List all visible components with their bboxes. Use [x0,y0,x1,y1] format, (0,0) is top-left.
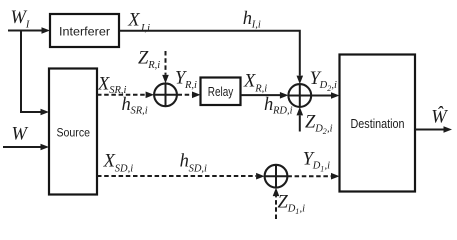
svg-text:R,i: R,i [184,80,197,91]
svg-text:RD,i: RD,i [272,106,293,117]
source box [49,69,97,195]
svg-text:X: X [127,11,140,31]
svg-text:Interferer: Interferer [59,25,110,39]
wire Y_D2 from adder C2 to Destination [311,92,339,99]
svg-text:SR,i: SR,i [131,106,148,117]
wire Y_R dashed from adder C1 to Relay [178,92,201,99]
svg-text:SD,i: SD,i [115,163,133,174]
svg-text:Relay: Relay [208,84,234,99]
wire Destination output W-hat [415,126,452,133]
destination box [340,55,416,192]
wire X_SD dashed from Source to adder C3 [97,173,265,180]
svg-text:X: X [243,72,256,92]
wire Y_D1 dashed from adder C3 to Destination [287,173,339,180]
svg-text:R,i: R,i [254,83,267,94]
adder C1 (sum at relay input) [154,83,177,106]
svg-text:I,i: I,i [251,20,261,31]
svg-text:,i: ,i [331,80,337,91]
svg-text:I,i: I,i [140,23,150,34]
svg-text:,i: ,i [325,161,331,172]
wire Z_D2 into adder C2 from below [297,107,304,132]
relay box [201,78,241,106]
svg-text:X: X [103,151,116,171]
svg-text:h: h [264,95,273,115]
wire X_SR dashed from Source to adder C1 [97,92,154,99]
svg-text:X: X [97,74,110,94]
interferer box [50,14,119,47]
svg-text:Source: Source [57,128,91,140]
adder C3 (sum at destination input, lower) [265,165,288,188]
svg-text:h: h [243,9,252,29]
adder C2 (sum at destination input, upper) [288,84,311,107]
wire Z_D1 dashed into adder C3 from below [273,188,280,219]
svg-text:SD,i: SD,i [189,163,207,174]
svg-text:Ŵ: Ŵ [431,105,448,127]
svg-text:,i: ,i [300,204,306,215]
svg-text:WI: WI [11,8,30,31]
wire W into Source [3,144,49,151]
svg-text:R,i: R,i [147,60,160,71]
wire Z_R dashed into adder C1 from top [162,51,169,83]
wire branch from W_I down into Source [21,31,49,116]
svg-text:W: W [12,125,29,145]
svg-text:,i: ,i [327,124,333,135]
svg-text:Destination: Destination [351,116,405,131]
wire X_R from Relay to adder C2 [241,92,289,99]
wire W_I to Interferer [8,27,50,34]
wire Interferer output to adder C2 (X_I,i / h_I,i) [119,31,303,84]
svg-text:h: h [180,151,189,171]
svg-text:h: h [122,95,131,115]
